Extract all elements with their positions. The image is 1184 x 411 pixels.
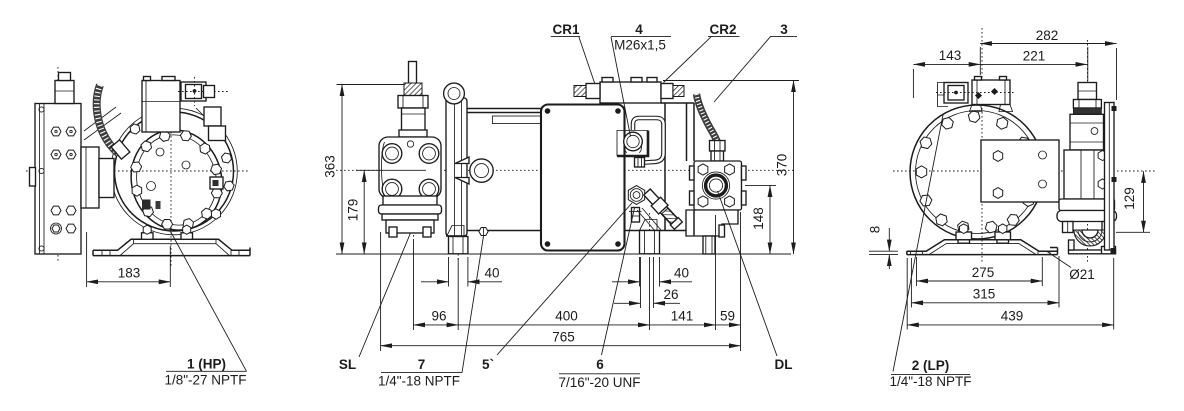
- connector block between plate and housing: [81, 147, 99, 208]
- svg-text:4: 4: [635, 22, 643, 37]
- centerline left foot: [457, 226, 459, 261]
- dim 129: [1116, 231, 1150, 233]
- svg-text:CR2: CR2: [709, 22, 736, 37]
- centerline vertical plate: [57, 67, 59, 262]
- fitting item6: [632, 208, 640, 223]
- floor baseline: [336, 253, 791, 255]
- svg-text:2 (LP): 2 (LP): [912, 358, 950, 373]
- svg-text:Ø21: Ø21: [1069, 267, 1095, 282]
- foot tabs with bolts: [142, 233, 154, 240]
- dim 40 right: [639, 257, 641, 287]
- valve bolts: [382, 144, 402, 164]
- dim 96 400 141 59: [413, 240, 415, 330]
- muffler support: [1069, 250, 1116, 254]
- svg-text:221: 221: [1023, 48, 1046, 63]
- leader 1 (HP): [170, 231, 246, 371]
- CR1 fitting: [586, 84, 600, 99]
- right foot leg: [640, 231, 660, 254]
- vent slot: [492, 116, 541, 124]
- dim 26: [640, 257, 642, 308]
- suction fitting thread: [404, 83, 422, 96]
- svg-text:143: 143: [939, 48, 962, 63]
- svg-text:M26x1,5: M26x1,5: [614, 38, 666, 53]
- dim 275: [916, 257, 918, 286]
- dimension 183: [86, 232, 88, 287]
- centerline right foot: [649, 213, 651, 261]
- unloader plates: [1059, 199, 1115, 211]
- centerline horizontal: [893, 170, 1157, 172]
- flange disc: [1105, 103, 1115, 251]
- schrader valve angled: [642, 188, 683, 230]
- svg-text:179: 179: [346, 199, 361, 222]
- braided discharge hose: [697, 94, 718, 142]
- unloader hex collar: [1073, 100, 1101, 109]
- housing bolts: [914, 110, 1037, 235]
- foot bracket: [907, 240, 1058, 255]
- svg-text:363: 363: [323, 155, 338, 178]
- svg-text:DL: DL: [775, 357, 793, 372]
- svg-text:7/16"-20 UNF: 7/16"-20 UNF: [558, 375, 640, 390]
- svg-text:275: 275: [972, 265, 995, 280]
- svg-text:141: 141: [671, 309, 694, 324]
- svg-text:439: 439: [1001, 309, 1024, 324]
- svg-text:282: 282: [1036, 28, 1059, 43]
- motor housing circle: [111, 108, 238, 235]
- body shell: [467, 103, 700, 231]
- sight glass left: [470, 159, 493, 182]
- svg-text:1/8"-27 NPTF: 1/8"-27 NPTF: [164, 373, 246, 388]
- centerline horizontal: [336, 169, 795, 171]
- left foot leg: [449, 237, 468, 254]
- svg-text:148: 148: [751, 207, 766, 230]
- svg-text:5`: 5`: [482, 357, 494, 372]
- unloader body: [1070, 114, 1104, 150]
- oil sight glass item5: [628, 186, 644, 205]
- terminal box: [142, 81, 180, 133]
- small plug item7: [479, 227, 488, 235]
- small head circles: [182, 161, 190, 169]
- oil pump: [617, 131, 648, 157]
- svg-text:CR1: CR1: [552, 22, 579, 37]
- stator plate: [981, 140, 1059, 202]
- terminal box cover: [541, 105, 625, 251]
- motor housing circle: [910, 105, 1044, 239]
- flange lower bracket: [686, 210, 738, 236]
- discharge flange: [694, 161, 742, 210]
- dim 282: [979, 47, 981, 75]
- unloader lower body: [1064, 150, 1113, 199]
- centerline unloader: [1087, 40, 1089, 262]
- centerline horizontal: [26, 170, 250, 172]
- housing diagonal edges top left: [84, 107, 116, 131]
- head cover ellipse: [117, 119, 236, 244]
- centerline vertical compressor: [170, 100, 172, 266]
- dim 40 left: [448, 257, 450, 287]
- compressor tabs: [956, 232, 972, 240]
- label 2 (LP): [893, 115, 943, 372]
- end flange: [446, 98, 467, 236]
- outer ring bolts: [112, 123, 236, 220]
- centerline discharge port: [715, 155, 717, 219]
- dim 765: [380, 232, 382, 351]
- DIN connector: [181, 82, 206, 101]
- hose nut stack: [710, 141, 726, 152]
- lifting eye: [444, 83, 465, 104]
- svg-text:400: 400: [555, 309, 578, 324]
- suction cap nut: [398, 96, 428, 109]
- suction cylinder: [402, 108, 426, 137]
- svg-text:8: 8: [868, 226, 883, 234]
- braided cable: [97, 85, 119, 154]
- plate hex bolts: [51, 127, 76, 233]
- centerline compressor: [981, 28, 983, 262]
- svg-text:SL: SL: [339, 357, 356, 372]
- dim 439: [906, 258, 908, 330]
- svg-text:370: 370: [775, 154, 790, 177]
- svg-text:1/4"-18 NPTF: 1/4"-18 NPTF: [889, 374, 971, 389]
- svg-text:26: 26: [663, 287, 678, 302]
- plate strip bolts: [39, 107, 44, 112]
- bracket right of box: [204, 107, 221, 126]
- dim 8: [869, 250, 898, 252]
- svg-text:3: 3: [780, 22, 788, 37]
- CR2 fitting: [661, 84, 673, 99]
- muffler dome: [1074, 230, 1106, 246]
- connector bracket: [938, 83, 949, 107]
- suction valve body: [379, 137, 441, 198]
- svg-text:7: 7: [418, 357, 426, 372]
- svg-text:1 (HP): 1 (HP): [187, 357, 226, 372]
- suction fitting stub: [409, 62, 417, 84]
- centerline suction valve: [413, 63, 415, 243]
- dim 143: [912, 69, 914, 98]
- oil plug dark: [142, 200, 151, 210]
- body bottom left line: [446, 235, 467, 237]
- cable gland: [111, 140, 130, 159]
- top fitting on plate: [55, 81, 74, 104]
- svg-text:6: 6: [596, 357, 604, 372]
- unloader top block: [1078, 83, 1097, 100]
- foot slots: [910, 251, 912, 254]
- svg-text:1/4"-18 NPTF: 1/4"-18 NPTF: [378, 374, 460, 389]
- svg-text:59: 59: [720, 309, 735, 324]
- dim 221: [1087, 47, 1089, 81]
- svg-text:96: 96: [431, 309, 446, 324]
- svg-text:765: 765: [552, 329, 575, 344]
- svg-text:40: 40: [484, 266, 499, 281]
- DIN connector rear: [944, 83, 968, 104]
- svg-text:183: 183: [118, 266, 141, 281]
- svg-text:129: 129: [1122, 187, 1137, 210]
- oil pipe loop: [633, 118, 664, 163]
- valve plate: [35, 104, 81, 255]
- plate bolts: [1063, 222, 1074, 233]
- discharge port DL: [702, 172, 729, 199]
- terminal box rear: [972, 80, 1010, 105]
- svg-text:315: 315: [973, 287, 996, 302]
- svg-text:40: 40: [674, 266, 689, 281]
- valve lower sections: [383, 196, 437, 205]
- head manifold: [600, 82, 661, 103]
- discharge support column: [703, 236, 715, 254]
- sight glass side boss: [210, 177, 223, 189]
- plate left tab: [30, 168, 36, 187]
- foot bracket: [93, 239, 250, 255]
- unloader coil dark band: [1073, 108, 1101, 114]
- dim 315: [910, 258, 912, 308]
